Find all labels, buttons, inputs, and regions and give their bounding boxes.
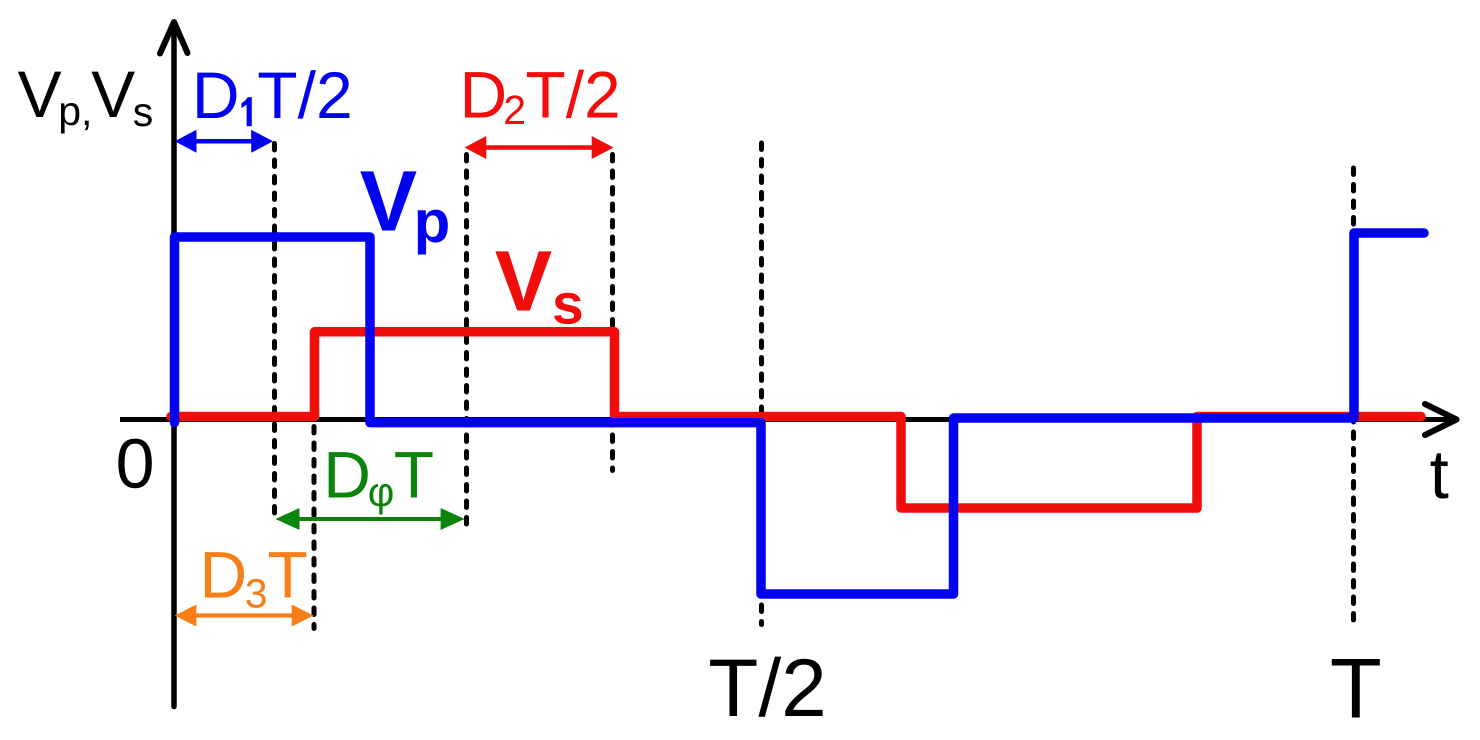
label Vp (blue bold) — [360, 153, 451, 255]
svg-text:T/2: T/2 — [257, 58, 352, 132]
svg-text:s: s — [552, 273, 584, 337]
dashed guide D3 end x=313 — [312, 427, 317, 629]
svg-text:p,: p, — [58, 88, 92, 134]
label D3T (orange) — [200, 538, 308, 617]
dashed guide D2 start x=466 — [464, 155, 469, 528]
dashed guide T x=1353 — [1351, 168, 1356, 623]
y axis arrowhead — [160, 22, 188, 54]
svg-text:p: p — [414, 188, 451, 255]
svg-text:T: T — [1330, 641, 1382, 736]
svg-text:3: 3 — [245, 571, 268, 617]
svg-text:V: V — [495, 234, 552, 330]
svg-text:V: V — [91, 57, 135, 131]
arrow DphiT (green, double headed) — [275, 508, 464, 530]
svg-text:T: T — [268, 538, 308, 612]
label DphiT (green) — [323, 437, 434, 515]
svg-text:φ: φ — [368, 469, 395, 515]
dashed guide T/2 x=761 — [759, 143, 764, 625]
axis label Vp,Vs (top left) — [18, 57, 154, 135]
arrow D1T/2 (blue, double headed) — [175, 130, 273, 153]
label D1T/2 (blue) — [192, 58, 353, 132]
svg-text:T/2: T/2 — [525, 58, 620, 132]
svg-text:D: D — [323, 437, 371, 511]
waveform Vp (blue) — [175, 233, 1425, 594]
y axis (voltage axis) — [171, 26, 177, 707]
svg-text:D: D — [192, 58, 240, 132]
dashed guide D2 end x=612 — [610, 155, 615, 471]
dashed guide D1 end x=274 — [272, 144, 277, 522]
svg-text:D: D — [460, 58, 508, 132]
waveform Vs (red) — [171, 332, 1421, 508]
svg-text:t: t — [1430, 436, 1449, 513]
label D2T/2 (red) — [460, 58, 621, 134]
svg-text:2: 2 — [503, 87, 526, 133]
svg-text:s: s — [133, 89, 154, 135]
svg-text:T: T — [394, 437, 434, 511]
x axis (time axis) — [120, 417, 1452, 422]
arrow D3T (orange, double headed) — [175, 605, 314, 627]
svg-text:V: V — [360, 153, 417, 249]
label Vs (red bold) — [495, 234, 584, 337]
svg-text:D: D — [200, 538, 248, 612]
svg-text:0: 0 — [116, 425, 155, 503]
arrow D2T/2 (red, double headed) — [465, 136, 614, 159]
svg-text:T/2: T/2 — [708, 643, 826, 734]
svg-text:V: V — [18, 57, 62, 131]
x axis arrowhead — [1425, 404, 1457, 435]
